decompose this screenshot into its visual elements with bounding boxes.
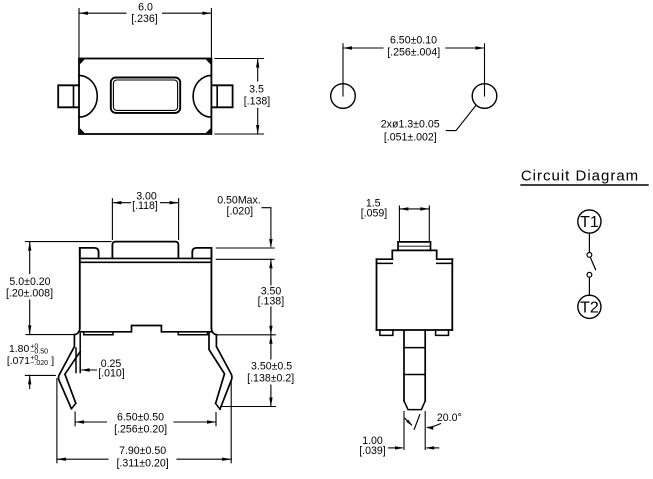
svg-text:5.0±0.20: 5.0±0.20 xyxy=(9,276,50,288)
svg-text:−.020: −.020 xyxy=(30,360,48,367)
svg-text:[.20±.008]: [.20±.008] xyxy=(6,287,53,299)
svg-text:[.039]: [.039] xyxy=(359,445,386,457)
svg-text:6.50±0.10: 6.50±0.10 xyxy=(390,34,437,46)
svg-text:[.051±.002]: [.051±.002] xyxy=(384,131,437,143)
svg-text:[.256±0.20]: [.256±0.20] xyxy=(114,423,167,435)
svg-text:2xø1.3±0.05: 2xø1.3±0.05 xyxy=(381,119,440,131)
svg-text:3.5: 3.5 xyxy=(249,84,264,96)
svg-text:[.311±0.20]: [.311±0.20] xyxy=(117,458,169,470)
svg-text:6.0: 6.0 xyxy=(138,2,153,14)
svg-text:[.236]: [.236] xyxy=(131,13,158,25)
svg-text:20.0°: 20.0° xyxy=(437,412,462,424)
svg-text:[.118]: [.118] xyxy=(132,200,158,212)
svg-text:[.138±0.2]: [.138±0.2] xyxy=(247,373,294,385)
svg-text:[.010]: [.010] xyxy=(98,368,125,380)
svg-text:[.059]: [.059] xyxy=(361,207,388,219)
svg-text:6.50±0.50: 6.50±0.50 xyxy=(117,411,164,423)
svg-text:[.071: [.071 xyxy=(7,356,30,367)
svg-text:[.020]: [.020] xyxy=(227,205,254,217)
svg-text:[.138]: [.138] xyxy=(244,95,271,107)
svg-text:[.256±.004]: [.256±.004] xyxy=(387,47,440,59)
svg-text:7.90±0.50: 7.90±0.50 xyxy=(119,445,166,457)
svg-text:]: ] xyxy=(51,356,54,367)
svg-text:T1: T1 xyxy=(580,214,599,231)
svg-text:Circuit Diagram: Circuit Diagram xyxy=(521,168,639,185)
svg-text:1.80: 1.80 xyxy=(9,344,29,355)
svg-text:[.138]: [.138] xyxy=(258,295,285,307)
svg-text:T2: T2 xyxy=(580,300,599,317)
svg-text:3.50±0.5: 3.50±0.5 xyxy=(251,361,292,373)
